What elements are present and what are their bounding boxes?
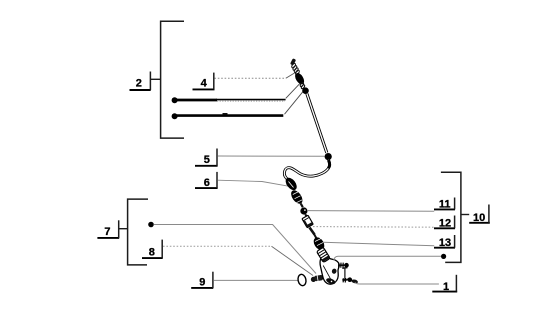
cable 2 end dot upper xyxy=(172,97,178,103)
svg-text:2: 2 xyxy=(136,77,142,89)
svg-text:6: 6 xyxy=(204,177,210,189)
leader 5 xyxy=(218,155,325,157)
knurled nut xyxy=(289,188,305,205)
leader 9 xyxy=(213,279,297,281)
neck xyxy=(301,204,303,208)
bracket 7 xyxy=(128,199,148,265)
dark shading on curve near ferrule xyxy=(328,160,329,168)
carburetor top body (part 1 area) xyxy=(320,257,339,285)
svg-text:5: 5 xyxy=(204,154,210,166)
label 13 xyxy=(434,235,455,249)
ball end (part 11) xyxy=(300,207,307,214)
svg-text:1: 1 xyxy=(443,281,449,293)
cable 2 end dot lower xyxy=(172,113,178,119)
washer behind screw B xyxy=(351,279,358,284)
leader from dot to body xyxy=(334,256,441,260)
body outline xyxy=(320,257,339,284)
leader 7 xyxy=(154,225,317,274)
bracket 10 xyxy=(441,172,461,262)
label 9 xyxy=(191,272,213,289)
screw A xyxy=(338,263,349,268)
leader 8 (dotted then solid) xyxy=(163,245,272,247)
leader 12 (dotted) xyxy=(313,226,434,229)
round bead on cable xyxy=(302,87,309,94)
threaded neck xyxy=(300,82,306,89)
leader 6 xyxy=(218,180,289,186)
throttle cable lower (thick line) xyxy=(177,114,283,117)
leader 1 xyxy=(355,283,439,285)
top tip nub xyxy=(290,58,296,65)
leader 4 (dotted) xyxy=(214,77,285,79)
label 5 xyxy=(195,149,218,167)
cable adjuster (part 6) xyxy=(283,176,299,192)
svg-text:13: 13 xyxy=(439,237,451,249)
svg-text:9: 9 xyxy=(199,276,205,288)
O-ring (part 9) xyxy=(297,274,307,287)
label 4 xyxy=(193,73,215,90)
label 7 xyxy=(97,220,127,238)
cable barrel (black blob) xyxy=(293,71,306,85)
knurled ring (part 13) xyxy=(311,235,326,251)
leader 13 xyxy=(323,242,434,246)
svg-text:11: 11 xyxy=(439,198,451,210)
neck 2 xyxy=(305,214,307,217)
dark wedge xyxy=(331,268,337,274)
leader from upper cable xyxy=(286,82,301,98)
label 8 xyxy=(142,240,163,259)
ferrule (part 5) xyxy=(325,153,332,160)
valve shaft xyxy=(310,228,315,235)
leader 11 xyxy=(307,210,434,213)
label 10 xyxy=(461,205,490,224)
leader from lower cable xyxy=(285,90,305,114)
label 6 xyxy=(195,172,218,189)
label 12 xyxy=(434,216,455,230)
label 2 xyxy=(130,72,161,91)
cotter pin I xyxy=(342,268,348,281)
svg-text:8: 8 xyxy=(149,246,155,258)
label 1 xyxy=(432,275,457,293)
adjuster spring coils xyxy=(291,63,300,76)
bracket 2 xyxy=(161,21,184,138)
label 11 xyxy=(434,198,455,211)
trunnion (part 12) xyxy=(302,215,313,228)
svg-text:7: 7 xyxy=(104,226,110,238)
bottom dark band xyxy=(325,277,336,285)
ribbed cap xyxy=(316,247,330,262)
svg-text:12: 12 xyxy=(439,218,451,230)
upper cable tube (diagonal double line) xyxy=(307,94,327,153)
pin (part 8 target) xyxy=(310,274,325,282)
throttle cable upper (thick line) xyxy=(177,99,217,102)
svg-text:4: 4 xyxy=(201,78,208,90)
S-curve cable tube xyxy=(284,160,329,180)
screw B xyxy=(343,277,352,282)
svg-text:10: 10 xyxy=(473,212,485,224)
inner line xyxy=(323,266,330,279)
leader 7 dot xyxy=(148,222,154,228)
dot item under 13 xyxy=(441,254,446,259)
